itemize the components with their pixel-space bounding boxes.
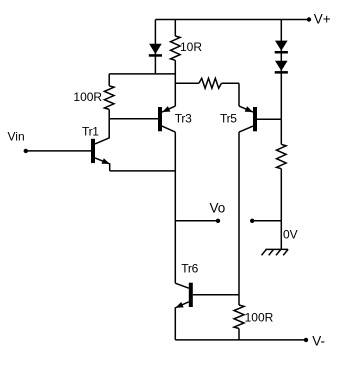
transistor Tr5	[239, 83, 281, 132]
node V+ terminal dot	[307, 17, 311, 21]
wire diode D1 branch	[154, 20, 156, 74]
diode D1	[149, 44, 162, 57]
wire Tr1 base	[26, 150, 91, 152]
svg-text:10R: 10R	[180, 40, 202, 54]
svg-text:Vo: Vo	[210, 201, 226, 216]
wire Vo stub	[175, 220, 218, 222]
wire Tr3 base / 100R bottom node	[109, 118, 158, 120]
svg-text:Vin: Vin	[8, 129, 25, 143]
wire Tr1 emitter to centre vertical	[110, 170, 176, 172]
diode D2	[275, 41, 288, 54]
node Vin terminal dot	[24, 149, 28, 153]
wire node row y74	[109, 73, 175, 75]
svg-text:0V: 0V	[283, 228, 298, 242]
svg-text:V+: V+	[314, 11, 331, 26]
resistor 100R (left)	[104, 74, 114, 119]
diode D3	[275, 61, 288, 74]
transistor Tr1	[91, 119, 110, 171]
wire 0V stub	[252, 220, 281, 222]
node Vo terminal dot	[216, 219, 220, 223]
transistor Tr3	[158, 106, 175, 132]
wire top supply rail	[155, 19, 309, 21]
resistor R2 horizontal between Tr3 and Tr5	[175, 78, 239, 88]
resistor R3 right unlabelled	[277, 119, 287, 221]
svg-text:100R: 100R	[73, 90, 102, 104]
svg-text:Tr1: Tr1	[82, 125, 99, 139]
svg-text:100R: 100R	[245, 311, 274, 325]
svg-text:Tr6: Tr6	[181, 262, 198, 276]
resistor 10R	[171, 20, 181, 61]
wire right diode branch	[280, 20, 282, 120]
transistor Tr6	[175, 283, 239, 340]
wire Tr5 collector vertical down	[238, 132, 240, 305]
node 0V terminal dot	[250, 219, 254, 223]
node V- terminal dot	[304, 338, 308, 342]
wire 10R bottom down to Tr3 emitter corner	[174, 60, 176, 106]
ground	[262, 249, 289, 255]
svg-text:V-: V-	[312, 334, 325, 349]
resistor 100R (bottom)	[234, 305, 244, 340]
wire bottom supply rail	[175, 339, 306, 341]
wire down to ground	[280, 221, 282, 250]
wire centre vertical Tr3 collector down to Tr6	[174, 132, 176, 283]
svg-text:Tr3: Tr3	[175, 112, 192, 126]
svg-text:Tr5: Tr5	[220, 112, 237, 126]
